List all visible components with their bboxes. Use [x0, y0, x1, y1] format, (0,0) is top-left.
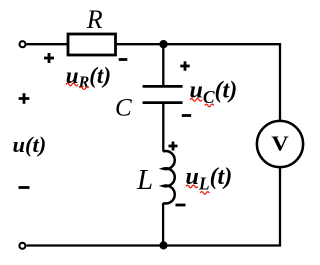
svg-text:C: C — [115, 95, 132, 122]
svg-text:V: V — [271, 132, 288, 155]
svg-text:R: R — [86, 5, 103, 34]
svg-text:L: L — [136, 164, 153, 196]
svg-text:uL(t): uL(t) — [186, 164, 233, 194]
svg-text:uR(t): uR(t) — [66, 63, 111, 91]
svg-text:u(t): u(t) — [13, 132, 47, 157]
